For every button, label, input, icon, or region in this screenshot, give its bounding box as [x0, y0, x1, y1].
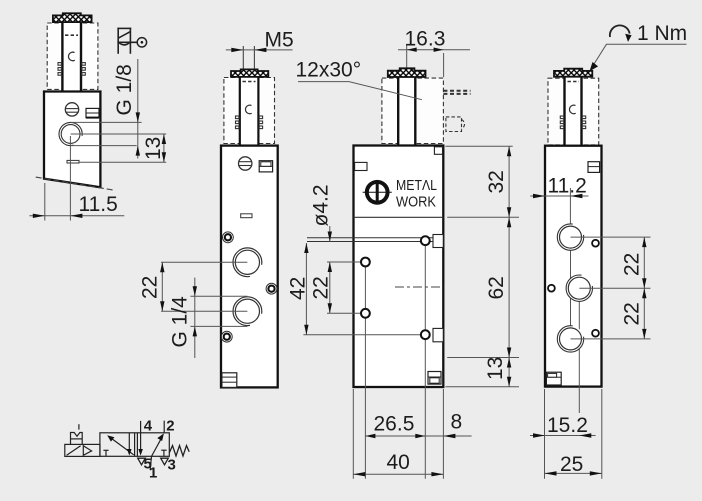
schematic solenoid box: [65, 444, 100, 456]
view2 stem side ticks: [236, 116, 263, 129]
svg-text:11.5: 11.5: [79, 193, 118, 216]
dimension M5: [226, 29, 294, 53]
view3 mounting hole top-right: [421, 236, 430, 245]
dimension 11.5: [29, 136, 124, 221]
view4 screw hole ring right-top: [592, 240, 599, 247]
view4 side connector block: [588, 162, 600, 173]
dimension 40: [353, 451, 443, 476]
view3 solenoid coil dashed outline: [382, 78, 444, 143]
schematic exhaust 5 triangle: [138, 458, 146, 465]
view4 port 1 circle: [557, 224, 583, 250]
dimension 25 extension lines: [545, 389, 602, 479]
view4 solenoid coil dashed outline: [548, 78, 599, 145]
view4 bottom connector block: [546, 372, 561, 385]
dimension 32: [485, 146, 511, 217]
view2 valve body: [221, 146, 278, 388]
schematic return spring: [169, 446, 189, 456]
pilot symbol box: [117, 28, 137, 54]
view4 port centre vertical line: [570, 237, 572, 339]
dimension 22 (front view): [139, 262, 165, 311]
dimension 42 (middle view): [287, 243, 310, 335]
view4 stem: [564, 77, 583, 146]
view3 groove lines: [307, 238, 443, 242]
view1 valve body: [44, 92, 100, 188]
svg-text:METΛL: METΛL: [396, 177, 437, 194]
schematic port 1 line: [150, 456, 151, 470]
view2 stem circlip symbol: [245, 105, 251, 114]
view3 dashed pilot plug: [446, 117, 465, 132]
view3 dashed cable entry lines: [443, 91, 470, 94]
view2 upper slot bar: [241, 214, 252, 218]
view2 port2 top tangent leader: [190, 295, 247, 297]
view2 port1 centre leader: [161, 261, 247, 263]
svg-text:42: 42: [287, 277, 310, 300]
view1 mounting plane dashed line: [36, 177, 113, 190]
svg-text:40: 40: [387, 451, 410, 474]
dimension G 1/4: [169, 278, 198, 358]
view1 port centre leader: [71, 133, 167, 135]
view1 adjustment screw: [65, 103, 78, 116]
view2 screw hole ring top-left: [223, 232, 234, 243]
view2 port2 centre leader: [161, 310, 247, 312]
view2 screw hole ring bottom-left: [221, 331, 232, 342]
view2 G1/4 port circle 2: [233, 297, 262, 326]
view1 knurled cap: [53, 13, 92, 22]
torque note 1 Nm: [590, 22, 688, 71]
schematic left square flow arrow diagonal: [107, 435, 134, 455]
svg-text:11.2: 11.2: [548, 175, 587, 198]
view2 knurled cap: [231, 69, 268, 77]
view2 stem thread dashes: [243, 81, 256, 83]
dimension 26.5 8 40 extension lines: [353, 389, 443, 479]
view2 screw hole ring mid-right: [266, 283, 277, 294]
dimension 13 (left view): [142, 134, 166, 162]
view4 screw hole ring right-bottom: [592, 330, 599, 337]
view3 left hole column line: [364, 262, 366, 479]
schematic left square blocked port: [103, 450, 108, 456]
view2 top connector block: [259, 161, 272, 172]
schematic manual override button: [70, 424, 82, 444]
svg-text:WORK: WORK: [396, 193, 436, 210]
svg-text:16.3: 16.3: [405, 28, 446, 51]
svg-text:22: 22: [139, 276, 162, 299]
svg-text:13: 13: [484, 357, 507, 380]
view1 bottom port bar: [67, 160, 79, 163]
view1 side connector block: [86, 108, 99, 117]
view4 knurled cap: [554, 69, 592, 77]
view3 valve body: [354, 146, 444, 388]
view3 bottom circle leader: [303, 334, 425, 336]
view4 port leaders to right: [571, 237, 651, 339]
view1 solenoid coil dashed outline: [47, 23, 98, 89]
view3 right hole column line: [424, 241, 426, 479]
view3 knurled cap: [388, 68, 426, 77]
view1 G1/8 port circle: [59, 122, 82, 145]
view3 right edge square bottom: [433, 328, 443, 341]
svg-text:1 Nm: 1 Nm: [637, 22, 687, 45]
view3 top-right slot: [434, 147, 442, 155]
label diameter 4.2: [310, 184, 333, 241]
schematic valve body squares: [100, 433, 169, 457]
label 12x30 degrees with leader: [296, 59, 422, 100]
svg-text:25: 25: [560, 453, 583, 476]
svg-text:32: 32: [485, 170, 508, 193]
svg-text:12x30°: 12x30°: [296, 59, 362, 82]
schematic right square down arrow (4 to 5): [138, 421, 143, 456]
svg-text:G 1/4: G 1/4: [169, 296, 192, 348]
schematic port 2 line: [163, 421, 165, 433]
schematic right square flow arrow diagonal: [152, 433, 164, 456]
svg-text:8: 8: [451, 411, 463, 434]
view1 port bottom tangent leader: [71, 145, 137, 147]
dimension 11.2: [530, 175, 588, 238]
view3 left hole leaders: [327, 262, 365, 313]
dimension 8: [425, 411, 471, 439]
view3 mounting hole bottom-right: [421, 330, 430, 339]
dimension 22 upper (right view): [621, 237, 647, 288]
svg-text:2: 2: [166, 418, 174, 435]
svg-text:15.2: 15.2: [547, 414, 588, 437]
view1 bottom port leader: [79, 161, 166, 163]
dimension 13 (middle view): [484, 357, 511, 387]
dimension 15.2: [530, 414, 596, 438]
dimension 22 lower (right view): [621, 288, 647, 339]
dimension 32 extension lines: [445, 146, 519, 386]
view4 port 2 circle: [566, 275, 592, 301]
metal work logo: [363, 177, 437, 211]
view2 solenoid coil dashed outline: [224, 78, 275, 144]
view3 stem: [398, 77, 417, 146]
view1 stem circlip symbol: [68, 52, 74, 61]
view2 bottom connector block: [222, 373, 237, 388]
dimension 16.3: [398, 28, 470, 78]
svg-text:1: 1: [149, 465, 157, 482]
svg-text:G 1/8: G 1/8: [113, 64, 136, 115]
view4 screw hole ring left-mid: [548, 285, 555, 292]
view3 top-left slot: [355, 162, 367, 170]
view3 right edge square top: [433, 235, 443, 248]
dimension G 1/8: [113, 59, 140, 159]
svg-text:26.5: 26.5: [374, 413, 415, 436]
view3 centre mark dashes: [395, 286, 443, 288]
view2 port2 bottom tangent leader: [190, 325, 247, 327]
svg-text:62: 62: [485, 276, 508, 299]
view3 mounting hole bottom-left: [361, 309, 370, 318]
svg-text:3: 3: [168, 457, 176, 474]
view4 stem thread dashes: [568, 81, 580, 83]
view4 middle port vertical line: [578, 288, 580, 413]
schematic right square blocked port 3: [161, 450, 166, 456]
dimension 25: [545, 453, 602, 476]
dimension 26.5: [365, 413, 425, 439]
view2 G1/4 port circle 1: [233, 248, 262, 277]
view3 stem centre line: [406, 44, 408, 162]
view1 stem side ticks: [58, 63, 85, 76]
view1 stem thread dashes: [65, 34, 78, 36]
view2 adjustment screw: [239, 157, 252, 170]
dimension 62: [485, 217, 511, 357]
view1 stem: [62, 22, 82, 92]
view3 mounting hole top-left: [361, 258, 370, 267]
view3 interface separator line: [354, 216, 444, 218]
view4 stem circlip symbol: [569, 105, 575, 114]
view4 stem side ticks: [560, 116, 585, 129]
schematic exhaust 3 triangle: [161, 458, 169, 465]
view4 valve body: [545, 146, 602, 387]
view1 port top tangent leader: [71, 121, 142, 123]
svg-text:22: 22: [310, 276, 333, 299]
svg-text:22: 22: [621, 253, 644, 276]
view2 M5 thread stem: [243, 46, 254, 70]
pilot symbol indicator circle: [137, 38, 146, 47]
svg-text:13: 13: [142, 137, 165, 160]
svg-text:4: 4: [144, 418, 153, 435]
view4 port 3 circle: [557, 326, 583, 352]
svg-text:M5: M5: [265, 29, 294, 52]
dimension 22 (middle view): [310, 262, 333, 313]
view3 bottom-right connector: [428, 372, 441, 385]
schematic left square down arrow: [127, 433, 132, 456]
svg-text:22: 22: [621, 302, 644, 325]
svg-text:ø4.2: ø4.2: [310, 184, 333, 226]
view2 stem: [240, 77, 259, 146]
